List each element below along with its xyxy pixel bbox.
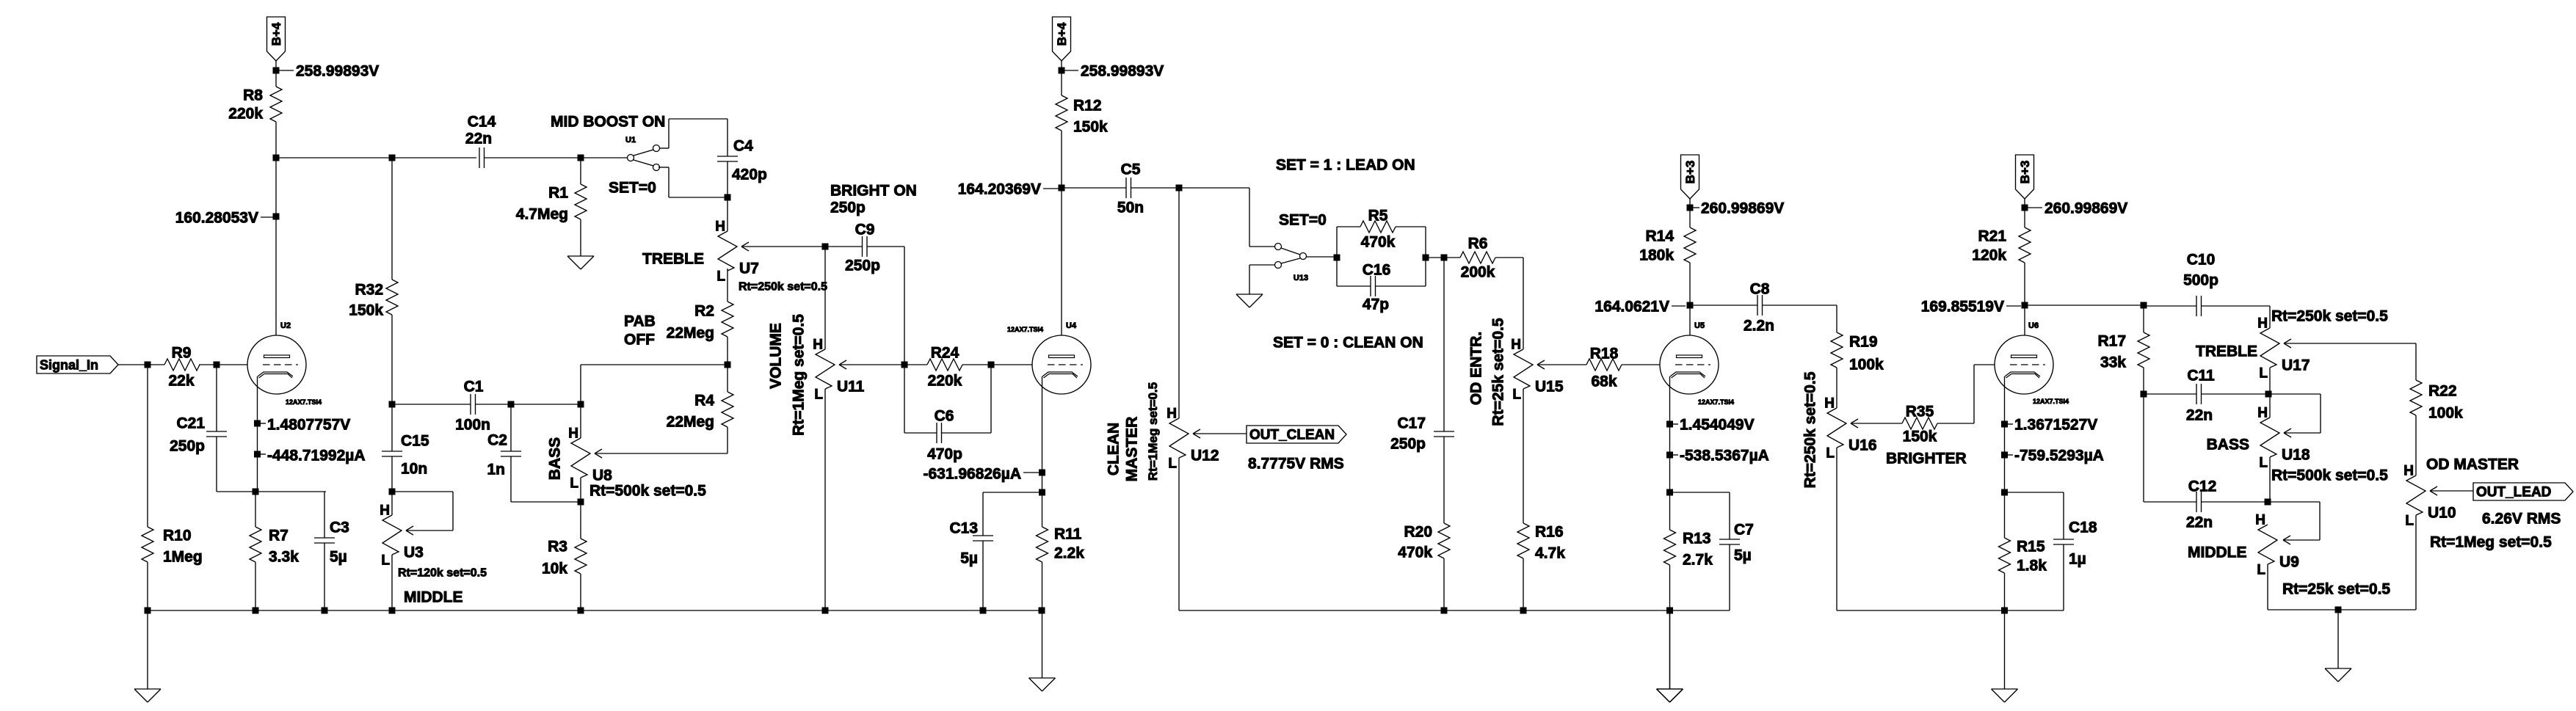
svg-text:22Meg: 22Meg: [667, 414, 714, 431]
svg-text:5µ: 5µ: [330, 549, 347, 566]
svg-text:U3: U3: [404, 544, 424, 561]
svg-text:R16: R16: [1535, 524, 1564, 541]
svg-text:12AX7.TSi4: 12AX7.TSi4: [286, 398, 322, 406]
svg-text:Rt=250k set=0.5: Rt=250k set=0.5: [1802, 371, 1818, 488]
svg-text:C17: C17: [1397, 415, 1426, 432]
svg-text:C8: C8: [1750, 281, 1770, 298]
svg-text:Rt=250k set=0.5: Rt=250k set=0.5: [2271, 308, 2388, 325]
svg-text:2.2k: 2.2k: [1054, 545, 1084, 562]
svg-text:Signal_In: Signal_In: [40, 358, 98, 373]
svg-text:VOLUME: VOLUME: [767, 323, 784, 389]
svg-text:MIDDLE: MIDDLE: [2188, 544, 2247, 561]
svg-text:Rt=25k set=0.5: Rt=25k set=0.5: [1490, 318, 1506, 426]
svg-text:150k: 150k: [349, 302, 383, 319]
svg-text:C4: C4: [733, 138, 753, 155]
svg-text:250p: 250p: [830, 200, 866, 216]
svg-text:U9: U9: [2279, 554, 2299, 571]
svg-text:B+4: B+4: [1055, 22, 1069, 45]
svg-text:R11: R11: [1054, 526, 1082, 543]
svg-text:-538.5367µA: -538.5367µA: [1680, 448, 1769, 464]
svg-text:R14: R14: [1645, 228, 1674, 245]
svg-text:470k: 470k: [1361, 234, 1396, 251]
svg-text:R6: R6: [1468, 236, 1488, 252]
svg-text:C16: C16: [1363, 262, 1391, 279]
svg-text:MASTER: MASTER: [1123, 417, 1140, 482]
svg-text:1.3671527V: 1.3671527V: [2014, 417, 2097, 434]
svg-text:SET=0: SET=0: [609, 180, 656, 197]
svg-text:H: H: [715, 219, 725, 235]
svg-text:L: L: [381, 553, 390, 569]
svg-text:420p: 420p: [732, 167, 767, 183]
svg-text:U15: U15: [1535, 379, 1564, 395]
svg-text:Rt=1Meg set=0.5: Rt=1Meg set=0.5: [790, 314, 807, 436]
svg-text:R12: R12: [1073, 98, 1102, 114]
svg-text:250p: 250p: [845, 258, 880, 274]
svg-text:R9: R9: [172, 345, 192, 362]
svg-text:R32: R32: [355, 282, 383, 299]
svg-text:H: H: [2257, 316, 2268, 332]
svg-text:H: H: [380, 503, 390, 519]
svg-text:R10: R10: [163, 528, 192, 544]
svg-text:C6: C6: [935, 408, 954, 425]
svg-text:C14: C14: [468, 114, 496, 131]
svg-text:Rt=1Meg set=0.5: Rt=1Meg set=0.5: [2430, 534, 2552, 551]
svg-text:12AX7.TSi4: 12AX7.TSi4: [1007, 326, 1043, 333]
svg-text:160.28053V: 160.28053V: [175, 210, 258, 227]
svg-text:C3: C3: [330, 519, 349, 536]
svg-text:R17: R17: [2097, 333, 2126, 350]
svg-text:100n: 100n: [455, 417, 490, 434]
svg-text:22n: 22n: [2186, 514, 2213, 531]
svg-text:C13: C13: [949, 520, 978, 537]
svg-text:R20: R20: [1404, 524, 1432, 541]
svg-text:260.99869V: 260.99869V: [2045, 200, 2127, 217]
svg-text:MIDDLE: MIDDLE: [404, 589, 463, 606]
svg-text:U7: U7: [739, 260, 759, 277]
svg-text:C5: C5: [1121, 161, 1141, 178]
svg-text:150k: 150k: [1073, 119, 1108, 136]
svg-text:33k: 33k: [2100, 354, 2126, 371]
svg-text:470k: 470k: [1398, 544, 1432, 561]
svg-text:U17: U17: [2282, 357, 2310, 374]
svg-text:L: L: [814, 387, 823, 403]
svg-text:100k: 100k: [1849, 357, 1884, 373]
svg-text:R7: R7: [269, 528, 289, 544]
svg-text:H: H: [2255, 513, 2265, 528]
svg-text:6.26V RMS: 6.26V RMS: [2482, 511, 2561, 528]
svg-text:220k: 220k: [928, 373, 962, 390]
svg-text:10n: 10n: [401, 461, 427, 478]
svg-text:L: L: [2259, 456, 2268, 471]
svg-text:OD ENTR.: OD ENTR.: [1467, 332, 1484, 405]
svg-text:U16: U16: [1848, 437, 1877, 454]
svg-text:-631.96826µA: -631.96826µA: [923, 466, 1021, 483]
svg-text:1µ: 1µ: [2069, 551, 2086, 568]
svg-text:1.4807757V: 1.4807757V: [267, 417, 350, 434]
svg-text:C10: C10: [2187, 252, 2216, 269]
svg-text:C7: C7: [1734, 522, 1754, 539]
svg-text:R35: R35: [1906, 404, 1934, 420]
svg-text:BASS: BASS: [2207, 437, 2249, 453]
svg-text:R21: R21: [1978, 228, 2006, 245]
svg-text:H: H: [1511, 338, 1521, 353]
svg-text:220k: 220k: [228, 106, 263, 123]
svg-text:OFF: OFF: [624, 332, 655, 349]
svg-text:R19: R19: [1849, 334, 1878, 351]
svg-text:Rt=25k set=0.5: Rt=25k set=0.5: [2282, 581, 2390, 598]
svg-text:H: H: [2257, 406, 2268, 421]
svg-text:H: H: [568, 426, 578, 442]
svg-text:U13: U13: [1294, 274, 1308, 282]
svg-text:L: L: [1826, 446, 1835, 462]
svg-text:Rt=1Meg set=0.5: Rt=1Meg set=0.5: [1146, 382, 1160, 481]
svg-text:C11: C11: [2187, 368, 2215, 384]
svg-text:H: H: [1824, 396, 1835, 412]
svg-text:PAB: PAB: [624, 313, 656, 330]
svg-text:R3: R3: [548, 539, 567, 555]
svg-text:250p: 250p: [1390, 436, 1426, 453]
svg-text:C15: C15: [401, 433, 429, 450]
svg-text:H: H: [813, 338, 823, 353]
svg-text:CLEAN: CLEAN: [1105, 423, 1122, 475]
svg-text:260.99869V: 260.99869V: [1701, 200, 1784, 217]
svg-text:2.7k: 2.7k: [1683, 552, 1713, 569]
svg-text:R13: R13: [1683, 530, 1711, 547]
svg-text:H: H: [2403, 464, 2414, 479]
svg-text:Rt=500k set=0.5: Rt=500k set=0.5: [589, 483, 706, 500]
svg-text:L: L: [716, 269, 725, 285]
svg-text:1.454049V: 1.454049V: [1680, 417, 1755, 434]
svg-text:B+4: B+4: [269, 22, 283, 45]
svg-text:Rt=250k set=0.5: Rt=250k set=0.5: [739, 281, 827, 293]
svg-text:164.20369V: 164.20369V: [958, 181, 1041, 198]
svg-text:C1: C1: [464, 379, 484, 395]
svg-text:OUT_LEAD: OUT_LEAD: [2476, 485, 2551, 500]
svg-text:U11: U11: [837, 379, 865, 395]
svg-text:R1: R1: [548, 185, 568, 202]
svg-text:SET=0: SET=0: [1279, 212, 1327, 229]
svg-text:U5: U5: [1694, 321, 1705, 330]
svg-text:164.0621V: 164.0621V: [1594, 299, 1669, 316]
svg-text:U1: U1: [625, 136, 636, 145]
svg-text:50n: 50n: [1117, 200, 1144, 216]
svg-text:OD MASTER: OD MASTER: [2426, 456, 2519, 473]
svg-text:R8: R8: [243, 87, 263, 104]
svg-text:L: L: [570, 476, 578, 492]
svg-text:R22: R22: [2428, 383, 2457, 400]
svg-text:5µ: 5µ: [1734, 547, 1752, 564]
svg-text:R2: R2: [694, 303, 714, 320]
svg-text:TREBLE: TREBLE: [2196, 343, 2257, 360]
svg-text:TREBLE: TREBLE: [642, 251, 704, 268]
svg-text:180k: 180k: [1639, 247, 1674, 264]
svg-text:R18: R18: [1590, 346, 1619, 362]
svg-text:4.7Meg: 4.7Meg: [516, 206, 568, 223]
svg-text:L: L: [2257, 563, 2265, 578]
svg-text:U18: U18: [2282, 447, 2310, 464]
svg-text:1Meg: 1Meg: [163, 549, 203, 566]
svg-text:U4: U4: [1066, 321, 1077, 330]
svg-text:-759.5293µA: -759.5293µA: [2014, 448, 2104, 464]
svg-text:22n: 22n: [465, 131, 492, 147]
svg-text:22Meg: 22Meg: [667, 325, 714, 342]
svg-text:Rt=120k set=0.5: Rt=120k set=0.5: [398, 567, 487, 580]
svg-text:1n: 1n: [487, 462, 505, 478]
svg-text:250p: 250p: [170, 438, 205, 455]
svg-text:68k: 68k: [1591, 373, 1617, 390]
svg-text:470p: 470p: [927, 446, 962, 463]
svg-text:1.8k: 1.8k: [2017, 558, 2047, 575]
svg-text:C12: C12: [2188, 478, 2217, 495]
svg-text:47p: 47p: [1363, 296, 1389, 313]
svg-text:4.7k: 4.7k: [1535, 545, 1565, 562]
svg-text:8.7775V RMS: 8.7775V RMS: [1248, 456, 1344, 473]
svg-text:5µ: 5µ: [960, 550, 978, 567]
svg-text:U8: U8: [592, 467, 612, 484]
svg-text:150k: 150k: [1903, 429, 1937, 445]
svg-text:U12: U12: [1191, 448, 1219, 464]
svg-text:Rt=500k set=0.5: Rt=500k set=0.5: [2271, 467, 2388, 484]
svg-text:C21: C21: [176, 415, 205, 432]
svg-text:258.99893V: 258.99893V: [1081, 63, 1164, 80]
svg-text:B+3: B+3: [1683, 161, 1697, 184]
svg-text:MID BOOST ON: MID BOOST ON: [551, 114, 665, 131]
svg-text:L: L: [1512, 387, 1521, 403]
svg-text:U2: U2: [280, 321, 291, 330]
svg-text:C9: C9: [855, 222, 875, 238]
svg-text:C2: C2: [487, 432, 507, 449]
svg-text:12AX7.TSi4: 12AX7.TSi4: [1698, 398, 1734, 406]
svg-text:R4: R4: [694, 393, 714, 409]
svg-text:22n: 22n: [2186, 407, 2213, 424]
svg-text:BRIGHT ON: BRIGHT ON: [830, 183, 917, 200]
svg-text:BASS: BASS: [546, 437, 563, 480]
svg-text:B+3: B+3: [2018, 161, 2032, 184]
svg-text:22k: 22k: [168, 373, 194, 390]
svg-text:L: L: [1168, 456, 1177, 472]
svg-text:C18: C18: [2069, 519, 2097, 536]
svg-text:500p: 500p: [2183, 272, 2218, 289]
svg-text:L: L: [2405, 514, 2414, 529]
svg-text:OUT_CLEAN: OUT_CLEAN: [1249, 428, 1335, 443]
svg-text:3.3k: 3.3k: [269, 549, 299, 566]
svg-text:R15: R15: [2017, 539, 2045, 555]
svg-text:12AX7.TSi4: 12AX7.TSi4: [2033, 398, 2069, 405]
svg-text:H: H: [1167, 406, 1177, 422]
svg-text:R5: R5: [1368, 208, 1388, 225]
svg-text:BRIGHTER: BRIGHTER: [1886, 451, 1967, 467]
svg-text:R24: R24: [931, 345, 959, 362]
svg-text:U6: U6: [2028, 321, 2039, 330]
svg-text:-448.71992µA: -448.71992µA: [267, 448, 366, 464]
svg-text:U10: U10: [2428, 505, 2456, 522]
svg-text:L: L: [2259, 366, 2268, 382]
svg-text:258.99893V: 258.99893V: [296, 63, 379, 80]
svg-text:200k: 200k: [1461, 264, 1495, 281]
svg-text:SET = 1 : LEAD ON: SET = 1 : LEAD ON: [1276, 157, 1415, 174]
svg-text:2.2n: 2.2n: [1744, 318, 1774, 335]
svg-text:SET = 0 : CLEAN ON: SET = 0 : CLEAN ON: [1273, 335, 1423, 351]
svg-text:100k: 100k: [2428, 405, 2463, 422]
svg-text:120k: 120k: [1972, 247, 2006, 264]
svg-text:169.85519V: 169.85519V: [1921, 299, 2004, 316]
svg-text:10k: 10k: [542, 561, 567, 577]
